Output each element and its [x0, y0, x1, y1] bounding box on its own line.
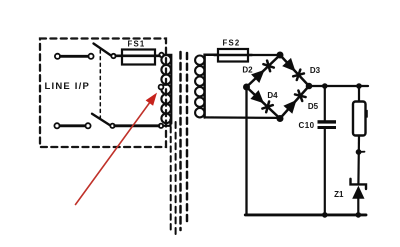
svg-text:D5: D5 — [308, 102, 319, 111]
node bridge bottom — [277, 115, 284, 122]
transformer core (dashed lines) — [179, 52, 182, 230]
svg-text:FS1: FS1 — [128, 40, 146, 49]
svg-text:D2: D2 — [242, 66, 253, 75]
connector link top (terminals) — [55, 54, 60, 59]
wire C10 to 0V rail — [324, 129, 326, 215]
wire terminal to primary bottom — [163, 120, 170, 126]
bridge rectifier edges — [247, 55, 310, 119]
capacitor C10 plates — [318, 120, 337, 123]
diode D4 triangle — [250, 90, 264, 103]
node C10 bottom — [322, 212, 328, 218]
screen dashed line a — [170, 127, 172, 232]
wire zener to 0V rail — [357, 199, 359, 215]
0V bottom rail — [245, 213, 366, 216]
annotation red arrow — [76, 103, 150, 204]
switch S1a contact — [111, 54, 115, 58]
fuse FS2 element wire — [214, 54, 252, 56]
screen dashed line b — [175, 122, 177, 236]
zener Z1 cathode bar — [351, 179, 367, 189]
+V rail from bridge right — [309, 85, 368, 87]
wire rail to C10 — [324, 86, 326, 120]
secondary winding loops — [195, 56, 204, 118]
wire FS1 to transformer primary — [164, 55, 172, 124]
wire bottom row — [115, 124, 159, 127]
switch S1b arm — [92, 114, 110, 126]
primary tap terminal — [159, 85, 164, 90]
fuse FS1 right terminal — [159, 53, 163, 57]
diode D5 triangle — [283, 100, 296, 114]
node bridge right — [306, 83, 313, 90]
diode D2 cathode bar — [263, 64, 273, 67]
node zener bottom — [356, 212, 362, 218]
resistor R body — [353, 102, 366, 136]
switch S1b contact — [110, 124, 114, 128]
fuse FS1 body — [122, 50, 155, 65]
connector link bottom (terminals) — [54, 123, 59, 128]
svg-text:FS2: FS2 — [223, 39, 241, 48]
node bridge top — [277, 52, 284, 59]
diode D3 cathode bar — [297, 70, 301, 80]
diode D4 cathode bar — [266, 102, 269, 113]
svg-text:D3: D3 — [310, 66, 321, 75]
switch S1a arm — [94, 44, 112, 56]
diode D3 triangle — [282, 58, 295, 72]
svg-text:C10: C10 — [299, 121, 315, 130]
wire resistor to zener node — [357, 136, 360, 185]
node resistor top — [356, 83, 362, 89]
zener Z1 triangle — [352, 186, 364, 199]
diode D5 cathode bar — [295, 94, 306, 97]
transformer T1 primary winding — [161, 55, 171, 123]
terminal to primary bottom — [159, 124, 163, 128]
diode D2 triangle — [251, 70, 265, 83]
enclosure LINE I/P dashed box — [40, 39, 166, 148]
wire rail to resistor R — [358, 86, 360, 102]
node C10 top — [322, 83, 328, 89]
resistor side tick — [366, 111, 368, 118]
wire FS2 to bridge top — [248, 54, 278, 56]
switch mechanical link (dashed) — [99, 50, 101, 119]
fuse FS1 element wire — [116, 54, 160, 57]
transformer T1 secondary winding return — [205, 55, 218, 118]
node bridge left — [243, 84, 250, 91]
wire bridge left to 0V rail — [245, 88, 247, 215]
wire secondary bottom to bridge — [205, 116, 278, 119]
svg-text:Z1: Z1 — [334, 190, 344, 199]
fuse FS2 body — [218, 49, 248, 62]
svg-text:LINE I/P: LINE I/P — [45, 81, 91, 92]
stub at zener node — [359, 151, 365, 153]
svg-text:D4: D4 — [267, 91, 278, 100]
node zener top — [356, 149, 362, 155]
